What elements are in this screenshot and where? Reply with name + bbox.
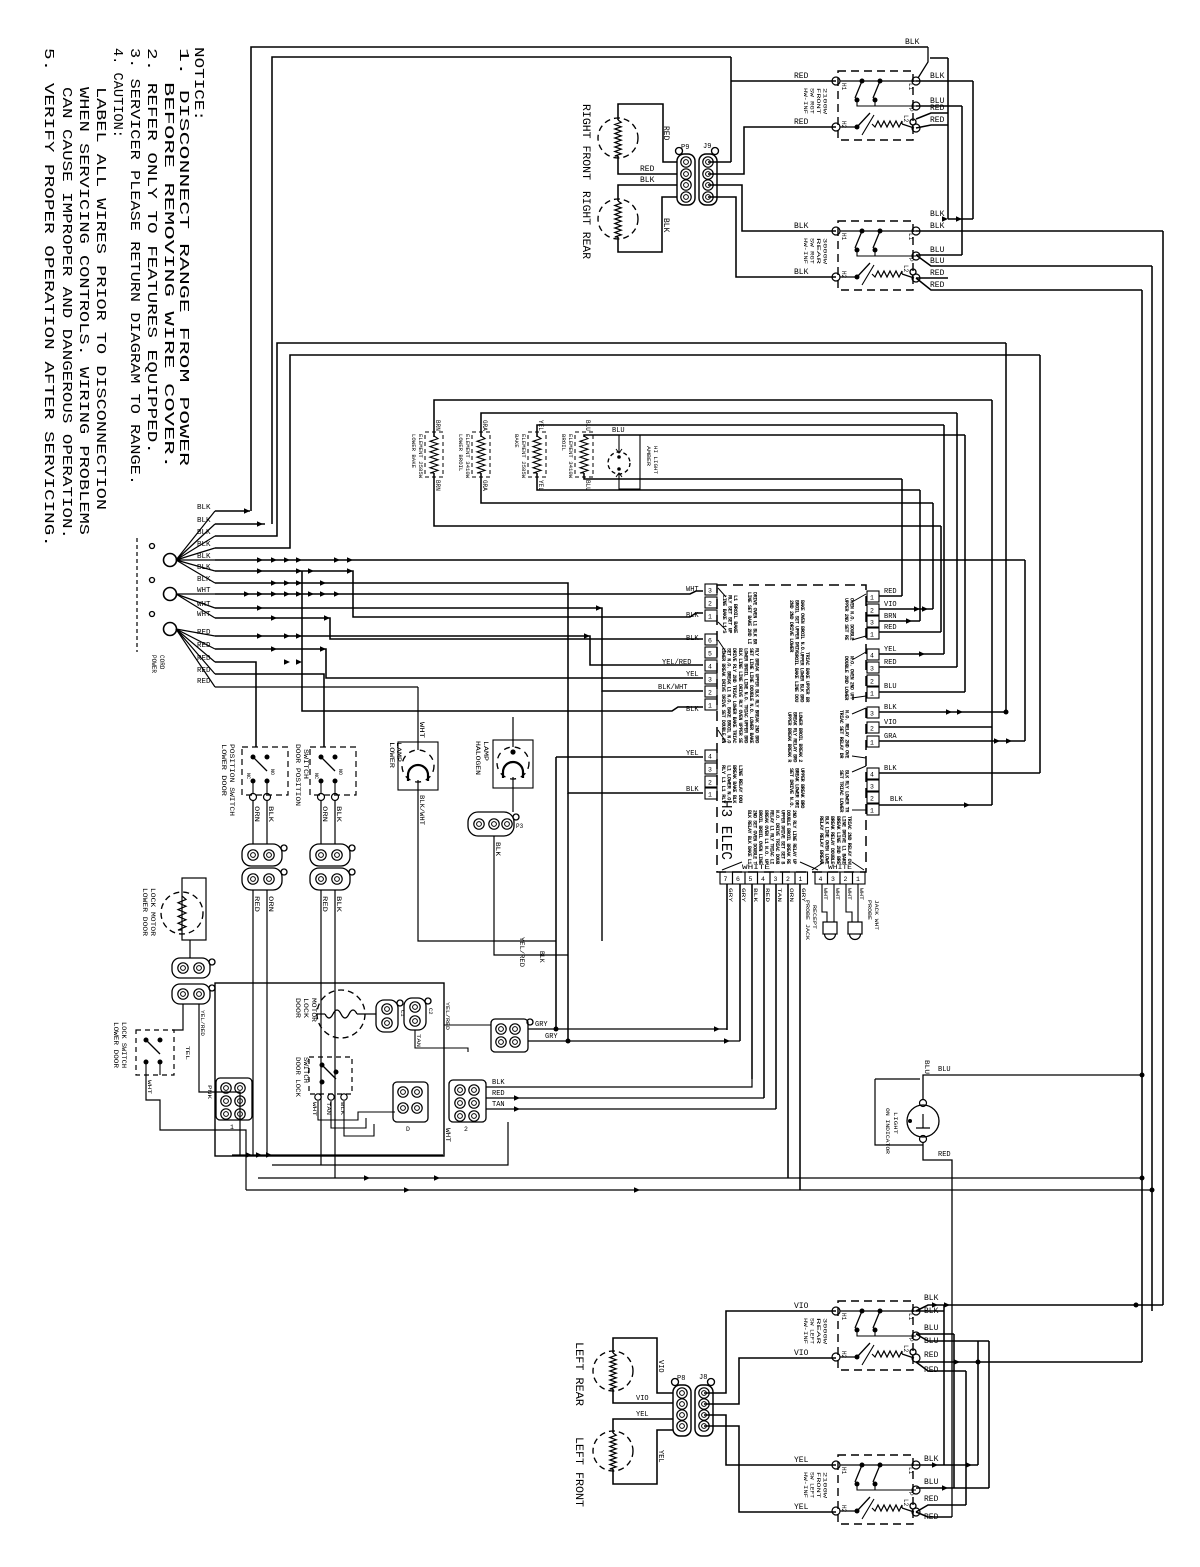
svg-text:WHITE: WHITE — [742, 864, 771, 871]
wire vertical x978 — [977, 1341, 979, 1465]
svg-text:BLK: BLK — [924, 1307, 939, 1316]
svg-text:L2: L2 — [902, 1499, 909, 1507]
svg-text:UPPER BREAK BRO: UPPER BREAK BRO — [799, 768, 805, 808]
svg-text:UPPER DRIVE SET SET B: UPPER DRIVE SET SET B — [780, 810, 786, 864]
svg-text:C1: C1 — [399, 1010, 406, 1017]
wire switch link — [857, 250, 875, 256]
svg-text:GRA: GRA — [481, 480, 488, 491]
connector J8 left elements — [695, 1385, 713, 1436]
svg-text:ORN: ORN — [253, 806, 260, 823]
svg-text:GRY: GRY — [545, 1033, 558, 1041]
svg-text:4: 4 — [870, 653, 874, 660]
wire BLK top border L1 — [251, 47, 928, 511]
svg-text:BLU: BLU — [884, 683, 897, 691]
svg-text:P3: P3 — [516, 823, 524, 830]
svg-text:2: 2 — [870, 679, 874, 686]
oven element BROIL — [575, 432, 593, 477]
wire probe jack — [833, 905, 835, 922]
svg-text:H3 ELEC: H3 ELEC — [717, 800, 734, 860]
connector strip bottom 1 — [720, 872, 733, 884]
svg-text:SWITCH: SWITCH — [302, 749, 309, 779]
svg-text:HW-INF: HW-INF — [802, 1472, 808, 1498]
wire vertical x973 — [972, 81, 974, 219]
svg-text:RED: RED — [197, 678, 211, 686]
svg-text:2: 2 — [464, 1126, 468, 1133]
wire vertical x965 — [964, 435, 966, 692]
wire bus y1178 — [258, 1177, 1142, 1179]
svg-text:N.O. RELAY 2ND OVE: N.O. RELAY 2ND OVE — [844, 710, 850, 758]
svg-text:BREAK LINE 2ND BRE: BREAK LINE 2ND BRE — [835, 816, 841, 864]
svg-text:H1: H1 — [840, 233, 847, 241]
svg-text:P: P — [907, 1338, 914, 1342]
wire bus y1165 — [272, 1122, 508, 1165]
svg-text:NC: NC — [313, 773, 319, 779]
wire VIO to switch 2 — [704, 1358, 836, 1404]
svg-text:YEL/RED: YEL/RED — [199, 1010, 206, 1037]
wire motor conn down — [415, 1030, 444, 1048]
wire BLK left rear long — [916, 1305, 1163, 1311]
svg-text:VIO: VIO — [794, 1302, 809, 1311]
wire bus y1190 — [246, 1189, 1152, 1191]
svg-text:L1: L1 — [907, 1313, 914, 1321]
wire RED fan 5 — [176, 629, 215, 687]
svg-text:RED: RED — [492, 1090, 505, 1098]
svg-text:1: 1 — [708, 792, 712, 799]
wire RED to board — [486, 1097, 764, 1099]
wire BLK right rear bottom — [618, 197, 677, 252]
wire ORN H3 bottom drop — [787, 884, 789, 1178]
wire oven bottom 4 — [584, 473, 902, 479]
wire to bus — [199, 1004, 240, 1155]
svg-text:ORN: ORN — [788, 888, 795, 902]
wire RED right front top — [618, 104, 677, 162]
wire VIO relay — [879, 608, 933, 610]
svg-text:HW-INF: HW-INF — [802, 1318, 808, 1344]
svg-text:6: 6 — [736, 876, 740, 883]
wire oven bottom 2 — [481, 473, 933, 503]
indicator AMBER HI LIGHT — [608, 452, 630, 474]
wire BLK bus to mid border — [215, 343, 1006, 536]
svg-text:SET DRIVE N.O.: SET DRIVE N.O. — [788, 768, 794, 808]
svg-text:YEL/RED: YEL/RED — [518, 937, 525, 967]
svg-text:HALOGEN: HALOGEN — [474, 741, 481, 776]
wire BLK right 2 — [879, 772, 1040, 774]
wire vertical x731 — [730, 57, 732, 162]
wire ORN — [252, 801, 254, 844]
wire vertical x933 — [932, 503, 934, 609]
svg-text:BLK: BLK — [197, 564, 211, 572]
wire BLU left front — [916, 1487, 989, 1489]
svg-text:2: 2 — [870, 796, 874, 803]
svg-text:RED: RED — [938, 1151, 951, 1159]
lamp LOWER OVEN — [402, 750, 434, 782]
svg-text:BLU: BLU — [938, 1066, 951, 1074]
svg-text:BLK: BLK — [794, 268, 809, 277]
wire BLU left rear 2 — [916, 1334, 989, 1341]
svg-text:BREAK RELAY DOUBLE: BREAK RELAY DOUBLE — [829, 816, 835, 864]
svg-text:1: 1 — [230, 1124, 234, 1131]
svg-text:HW-INF: HW-INF — [802, 88, 808, 114]
wire BLU P rf — [916, 105, 962, 107]
svg-text:REAR: REAR — [815, 238, 821, 264]
wire BLK fan — [176, 524, 215, 560]
wire switch link — [857, 1484, 875, 1490]
svg-text:2: 2 — [708, 601, 712, 608]
wire RED left front 2 — [916, 1512, 952, 1517]
wire RED relay — [879, 595, 902, 597]
svg-text:SET TRIAC LOWER: SET TRIAC LOWER — [838, 770, 844, 813]
wire indicator frame — [875, 1079, 923, 1145]
connector P9 surface elements — [677, 154, 695, 205]
indicator ON LIGHT — [907, 1105, 939, 1137]
svg-text:BLK LINE LINE DRIVE RLY OVEN U: BLK LINE LINE DRIVE RLY OVEN UPPER SE — [737, 648, 743, 743]
svg-text:2: 2 — [786, 876, 790, 883]
svg-text:BLK: BLK — [686, 612, 699, 620]
wire join — [787, 1177, 789, 1179]
svg-text:SET N.O. BREAK L1 N.O. BAKE BR: SET N.O. BREAK L1 N.O. BAKE BROIL N.O — [726, 648, 732, 743]
wire RED relay 2 — [879, 631, 941, 633]
svg-text:DOUBLE 2ND LOWER: DOUBLE 2ND LOWER — [843, 656, 849, 701]
svg-text:DOOR: DOOR — [294, 998, 301, 1019]
connector strip bottom 2 — [815, 872, 828, 884]
svg-text:WHT: WHT — [686, 586, 699, 594]
infinite switch left rear — [838, 1301, 913, 1370]
svg-text:1: 1 — [870, 808, 874, 815]
svg-text:LOCK: LOCK — [302, 998, 309, 1019]
wire GRY H3 bottom drop — [799, 884, 801, 1190]
wire WHT — [318, 1101, 395, 1120]
svg-text:YEL: YEL — [884, 646, 897, 654]
wire BLK bus long — [215, 559, 1025, 561]
wire switch link — [857, 1330, 875, 1336]
wire BLK H1 right rear — [708, 185, 836, 231]
svg-text:RED: RED — [930, 104, 945, 113]
svg-text:BLK: BLK — [930, 222, 945, 231]
svg-text:BROIL: BROIL — [560, 434, 566, 451]
wire vertical x1006 — [1005, 343, 1007, 712]
svg-text:BLK: BLK — [197, 517, 211, 525]
svg-text:2. REFER ONLY TO FEATURES EQU: 2. REFER ONLY TO FEATURES EQUIPPED. — [143, 48, 158, 454]
wire VIO left rear bottom — [613, 1389, 673, 1403]
wire VIO right — [879, 726, 992, 728]
svg-text:N.O. DRIVE TRIAC DOUB: N.O. DRIVE TRIAC DOUB — [774, 810, 780, 864]
wire motor coil l — [317, 1013, 325, 1015]
wire BLK bus to H3 pin — [215, 571, 703, 617]
wire ORN/WHT — [320, 801, 322, 844]
wire BLK — [334, 801, 336, 844]
wire BLU P rr long — [916, 255, 1152, 266]
wire YEL to switch — [704, 1415, 836, 1465]
svg-text:LEFT FRONT: LEFT FRONT — [572, 1437, 584, 1507]
svg-text:D: D — [406, 1126, 410, 1133]
connector P8 left elements — [673, 1385, 691, 1436]
svg-text:WHITE: WHITE — [828, 864, 853, 871]
wire vertical x954 — [953, 1334, 955, 1488]
connector strip right 4 — [867, 768, 879, 779]
svg-text:TRIAC SET RELAY DR: TRIAC SET RELAY DR — [838, 710, 844, 759]
connector strip left 2 — [705, 634, 717, 645]
wire oven top 3 — [537, 425, 944, 437]
motor DOOR LOCK — [317, 990, 365, 1038]
wire lamp loop — [619, 435, 640, 489]
svg-text:BLK: BLK — [661, 218, 670, 233]
svg-text:4: 4 — [708, 754, 712, 761]
svg-text:L1 LOWER N.O.: L1 LOWER N.O. — [726, 765, 732, 803]
wire BLU left rear — [916, 1333, 954, 1335]
wire BLK H2 right rear — [708, 197, 836, 277]
wire BLK L1 rf — [916, 80, 973, 82]
wire RED bus to door switch — [215, 662, 256, 747]
wire GRY H3 bottom drop — [726, 884, 728, 1030]
connector strip right 1 — [867, 591, 879, 602]
wire oven top 1 — [434, 400, 992, 437]
wire VIO left rear top — [613, 1338, 673, 1393]
svg-text:2: 2 — [844, 876, 848, 883]
svg-text:TAN: TAN — [776, 888, 783, 902]
svg-text:YEL: YEL — [636, 1411, 649, 1419]
svg-text:RIGHT FRONT: RIGHT FRONT — [579, 104, 591, 180]
svg-text:LOWER BROIL: LOWER BROIL — [457, 434, 463, 471]
connector door position switch C — [310, 844, 350, 866]
svg-text:YEL: YEL — [656, 1450, 664, 1463]
wire lamp top — [618, 435, 620, 452]
svg-text:L1: L1 — [907, 1467, 914, 1475]
wire top jumper — [930, 57, 948, 59]
svg-text:LOWER BAKE: LOWER BAKE — [410, 434, 416, 468]
wire vertical x1142 right edge — [1141, 290, 1143, 1362]
wire RED H1 right front — [731, 80, 836, 82]
svg-text:TRIAC 2ND RELAY OV: TRIAC 2ND RELAY OV — [846, 816, 852, 865]
svg-text:NO: NO — [269, 769, 275, 775]
wire RED H2 right front — [708, 127, 836, 174]
svg-text:BLK: BLK — [884, 765, 897, 773]
wire BLK jumper y219 — [948, 218, 973, 220]
svg-text:2100W: 2100W — [822, 88, 828, 114]
svg-text:SW LEFT: SW LEFT — [809, 1318, 815, 1344]
svg-text:RED: RED — [794, 118, 809, 127]
svg-text:1: 1 — [870, 740, 874, 747]
svg-text:WHT: WHT — [822, 888, 829, 901]
oven element LOWER BAKE — [425, 432, 443, 477]
motor LOWER DOOR LOCK — [161, 892, 203, 934]
svg-text:RED: RED — [924, 1366, 939, 1375]
svg-text:YEL: YEL — [686, 671, 699, 679]
svg-text:BRN: BRN — [434, 480, 441, 491]
svg-text:HW-INF: HW-INF — [802, 238, 808, 264]
svg-text:3000W: 3000W — [822, 238, 828, 264]
svg-text:RED: RED — [884, 659, 897, 667]
wire RED left rear long — [916, 1361, 1142, 1363]
svg-text:2: 2 — [708, 780, 712, 787]
svg-text:BREAK RLY RELAY BRO: BREAK RLY RELAY BRO — [792, 712, 798, 762]
oven element LOWER BROIL — [472, 432, 490, 477]
wire BLK — [344, 1101, 374, 1136]
wire vertical x1040 — [1039, 355, 1041, 773]
meat probe jack 1 — [823, 922, 837, 934]
wire WHT bus 2 — [215, 608, 703, 691]
switch LOWER DOOR POSITION — [242, 747, 288, 795]
svg-text:FRONT: FRONT — [815, 1472, 821, 1498]
wire motor coil r — [357, 1013, 376, 1015]
oven element BAKE — [528, 432, 546, 477]
lamp HALOGEN — [497, 747, 529, 779]
svg-text:NOTICE:: NOTICE: — [190, 47, 205, 121]
svg-text:WHT: WHT — [846, 888, 853, 901]
svg-text:REAR: REAR — [815, 1318, 821, 1344]
wire BLK — [266, 801, 268, 844]
svg-text:L1 BROIL BAKE: L1 BROIL BAKE — [732, 595, 738, 633]
svg-text:C2: C2 — [427, 1008, 434, 1015]
svg-text:BLK: BLK — [930, 72, 945, 81]
wire YEL to board — [556, 756, 703, 758]
svg-text:LOWER: LOWER — [388, 742, 395, 769]
wire RED left front — [916, 1505, 966, 1512]
svg-text:4. CAUTION:: 4. CAUTION: — [109, 48, 124, 138]
svg-text:MOTOR: MOTOR — [310, 998, 317, 1023]
svg-text:L1: L1 — [907, 83, 914, 91]
svg-text:NC: NC — [245, 773, 251, 779]
wire probe jack — [846, 905, 852, 922]
svg-text:1: 1 — [870, 632, 874, 639]
svg-text:BROIL BROIL OVEN LINE: BROIL BROIL OVEN LINE — [757, 810, 763, 864]
wire RED fan — [176, 629, 215, 674]
svg-text:RELAY L1 RLY TRIAC LI: RELAY L1 RLY TRIAC LI — [768, 810, 774, 864]
svg-text:RED: RED — [924, 1351, 939, 1360]
svg-text:BLK: BLK — [924, 1455, 939, 1464]
svg-text:BLK: BLK — [884, 704, 897, 712]
svg-text:AMBER: AMBER — [645, 446, 651, 466]
svg-text:RIGHT REAR: RIGHT REAR — [579, 191, 591, 259]
wire BLK bus y511 — [215, 510, 250, 512]
svg-text:4: 4 — [708, 664, 712, 671]
infinite switch right rear H2 — [838, 221, 913, 290]
svg-text:WHT: WHT — [197, 611, 211, 619]
wire lock switch down — [146, 1075, 246, 1190]
svg-text:WHEN SERVICING CONTROLS. WIRIN: WHEN SERVICING CONTROLS. WIRING PROBLEMS — [75, 87, 90, 535]
svg-text:BREAK LOWER DRI: BREAK LOWER DRI — [794, 768, 800, 808]
wire RED relay 3 — [879, 666, 957, 668]
wire BLK/WHT lamp bottom — [418, 780, 556, 941]
svg-text:BLK RLY LOWER TR: BLK RLY LOWER TR — [844, 770, 850, 813]
svg-text:RED: RED — [197, 629, 211, 637]
svg-text:PROBE JACK: PROBE JACK — [804, 900, 810, 940]
svg-text:4: 4 — [761, 876, 765, 883]
svg-text:LEFT REAR: LEFT REAR — [572, 1342, 584, 1406]
svg-text:RLY SET SET UP: RLY SET SET UP — [727, 595, 733, 633]
wire YEL left front bottom — [613, 1430, 673, 1484]
svg-text:J8: J8 — [699, 1374, 707, 1382]
svg-text:BLK LINE OVEN LOWE: BLK LINE OVEN LOWE — [824, 816, 830, 864]
connector 2 door lock — [449, 1080, 486, 1122]
svg-text:2ND RLY LINE RELAY UP: 2ND RLY LINE RELAY UP — [791, 810, 797, 864]
wire BLK fan — [176, 548, 215, 560]
wire BLK to board — [486, 1079, 752, 1087]
wire bus y1155 — [232, 1154, 443, 1156]
connector J9 surface elements — [699, 154, 717, 205]
wire BLK fan — [176, 560, 215, 583]
svg-text:1: 1 — [708, 614, 712, 621]
wire vertical x944 — [943, 425, 945, 654]
connector strip right 3 — [867, 707, 879, 718]
svg-text:3: 3 — [708, 677, 712, 684]
svg-text:RED: RED — [930, 281, 945, 290]
wire RED bus 4 — [215, 686, 418, 688]
wire BLU P rr — [916, 254, 962, 256]
svg-text:LAMP: LAMP — [482, 741, 489, 762]
svg-text:DOUBLE BROIL BREAK RE: DOUBLE BROIL BREAK RE — [785, 810, 791, 864]
connector strip left 1 — [705, 584, 717, 595]
svg-text:POWER: POWER — [150, 655, 157, 673]
svg-text:BLK: BLK — [686, 706, 699, 714]
wire motor down — [189, 940, 191, 958]
connector halogen lamp — [468, 812, 514, 836]
svg-text:BLK: BLK — [335, 896, 342, 913]
svg-text:3: 3 — [870, 784, 874, 791]
svg-text:RED: RED — [640, 165, 655, 174]
svg-text:WHT: WHT — [834, 888, 841, 901]
svg-text:1: 1 — [708, 703, 712, 710]
svg-text:BLK: BLK — [890, 796, 903, 804]
svg-text:CAN CAUSE IMPROPER AND DANGERO: CAN CAUSE IMPROPER AND DANGEROUS OPERATI… — [58, 87, 73, 539]
wire BLK fan — [176, 536, 215, 560]
svg-text:P9: P9 — [681, 144, 689, 152]
svg-text:YEL/RED: YEL/RED — [444, 1002, 451, 1031]
svg-text:VIO: VIO — [884, 719, 897, 727]
wire GRY — [528, 1028, 727, 1030]
wire BLK halogen to board — [494, 836, 568, 955]
svg-text:CORD: CORD — [158, 655, 165, 670]
wire BLK right — [879, 711, 1006, 713]
wire RED left rear 2 — [916, 1362, 966, 1371]
svg-text:UPPER 2ND SET RE: UPPER 2ND SET RE — [843, 598, 849, 640]
svg-text:DOOR LOCK: DOOR LOCK — [294, 1057, 301, 1097]
wire vertical x556 — [555, 757, 557, 1029]
wire BLK right rear top — [618, 185, 677, 201]
svg-text:L2: L2 — [902, 1345, 909, 1353]
svg-text:BLK: BLK — [197, 529, 211, 537]
wire WHT bus 3 — [215, 618, 703, 639]
svg-text:RED: RED — [884, 624, 897, 632]
svg-text:LABEL ALL WIRES PRIOR TO DISCO: LABEL ALL WIRES PRIOR TO DISCONNECTION — [92, 87, 107, 510]
svg-text:1: 1 — [870, 691, 874, 698]
svg-text:RED: RED — [884, 588, 897, 596]
wire halogen top — [512, 717, 514, 747]
svg-text:3: 3 — [870, 711, 874, 718]
svg-text:ORN: ORN — [267, 896, 274, 913]
svg-text:2ND SET OVEN DOUBLE T: 2ND SET OVEN DOUBLE T — [752, 810, 758, 864]
connector 1 door lock left — [216, 1078, 252, 1120]
svg-text:WHT: WHT — [311, 1102, 318, 1117]
svg-text:H1: H1 — [840, 83, 847, 91]
svg-text:GRY: GRY — [727, 888, 734, 903]
svg-text:BAKE OVEN BROIL N.O.: BAKE OVEN BROIL N.O. — [799, 600, 805, 652]
wire BLK H3 bottom drop — [751, 884, 753, 1079]
svg-text:BLK: BLK — [335, 806, 342, 823]
svg-text:PNK: PNK — [206, 1085, 213, 1100]
svg-text:LOWER DOOR: LOWER DOOR — [141, 888, 148, 937]
svg-text:N.O. OVEN 2ND UPP: N.O. OVEN 2ND UPP — [849, 656, 855, 700]
svg-text:L1: L1 — [907, 233, 914, 241]
svg-text:BLU: BLU — [924, 1324, 939, 1333]
svg-text:BLK: BLK — [492, 1079, 505, 1087]
surface element RIGHT FRONT — [598, 118, 638, 158]
svg-text:BLK: BLK — [686, 786, 699, 794]
svg-text:3: 3 — [870, 620, 874, 627]
wire WHT fan — [176, 594, 215, 618]
wire YEL relay — [879, 653, 944, 655]
wire probe jack — [822, 905, 827, 922]
svg-text:BLK RELAY BLK BAKE L1: BLK RELAY BLK BAKE L1 — [746, 810, 752, 864]
